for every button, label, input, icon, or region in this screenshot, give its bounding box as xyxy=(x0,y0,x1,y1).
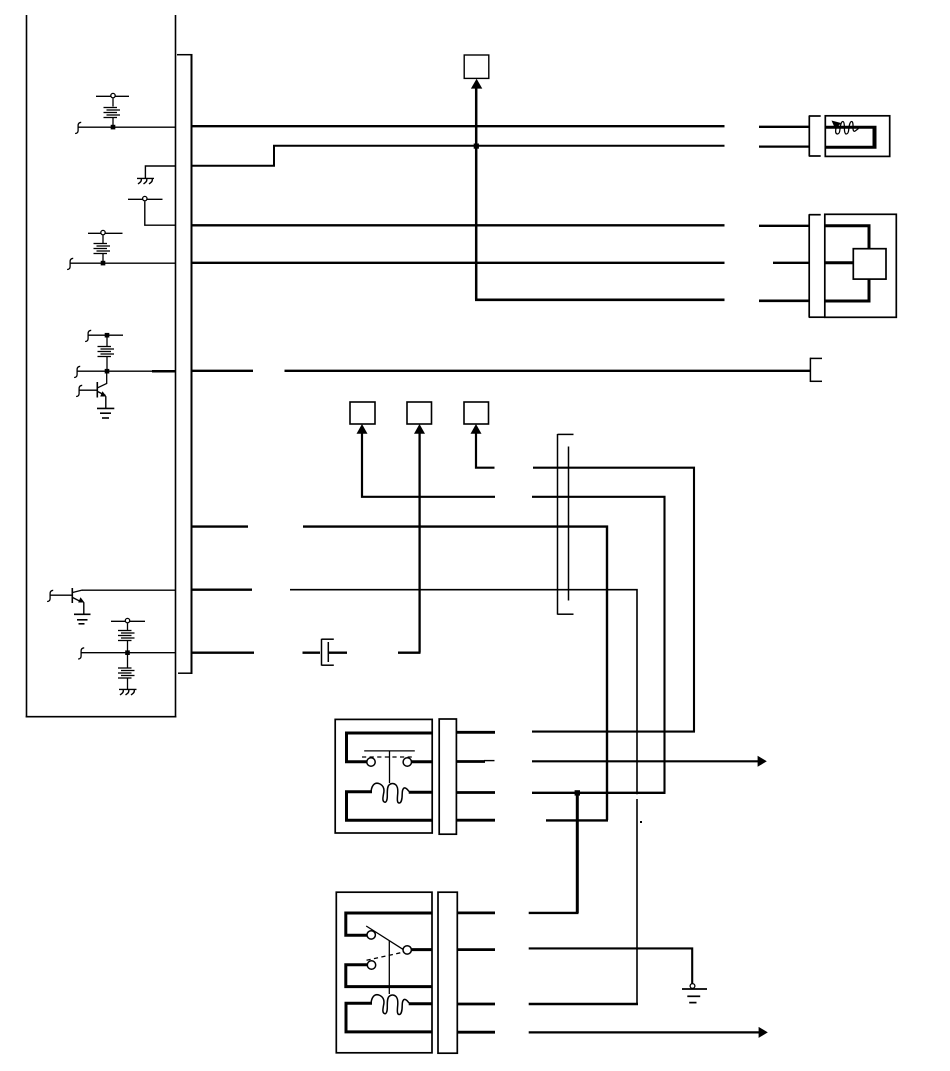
wire row E xyxy=(192,652,255,654)
wire row D segment 2 xyxy=(290,590,637,795)
relay K1 box xyxy=(335,719,432,833)
heater connector xyxy=(809,116,821,157)
K1 wire 2 arrow line xyxy=(532,760,758,762)
K1 wire 3 xyxy=(532,792,666,794)
M3 wire xyxy=(418,433,420,653)
wire row5 segment 2 xyxy=(759,299,810,302)
connector squiggle xyxy=(85,330,91,341)
heater box xyxy=(825,116,889,157)
terminal circle line 1 xyxy=(96,95,129,97)
K2 pin stubs xyxy=(457,913,495,1032)
battery feed vertical xyxy=(576,793,579,913)
inline connector mid xyxy=(558,434,574,615)
ECU box bottom edge xyxy=(26,716,177,718)
node dot xyxy=(105,369,110,374)
relay K1 contact left xyxy=(367,758,375,766)
inline connector small xyxy=(322,639,334,666)
arrow up M1 xyxy=(471,79,482,89)
sensor box xyxy=(825,214,897,317)
K1 wire 4 xyxy=(546,819,608,821)
relay K1 switch bar xyxy=(364,750,415,752)
node dot xyxy=(575,790,580,795)
wire pin row 7 left xyxy=(81,652,175,654)
node dot xyxy=(474,144,479,149)
resistor R1 xyxy=(104,108,121,118)
relay K1 connector xyxy=(439,719,456,834)
relay K2 coil left wire xyxy=(346,1003,432,1032)
earth ground xyxy=(97,408,114,418)
supply line vertical xyxy=(475,88,478,300)
wire row4 right xyxy=(192,262,725,264)
end bracket xyxy=(810,358,822,382)
sensor inner wiring xyxy=(826,226,870,301)
relay K2 contact B xyxy=(403,946,411,954)
wire row A xyxy=(533,468,694,732)
wire xyxy=(127,641,129,653)
relay K2 pin1 xyxy=(346,913,432,935)
node dot xyxy=(111,125,116,130)
wire pin row 2 left xyxy=(70,262,175,264)
relay K2 pin3 xyxy=(409,1002,432,1005)
chassis ground xyxy=(137,178,154,184)
node dot xyxy=(101,261,106,266)
relay K2 pin2 xyxy=(412,948,432,951)
connector squiggle xyxy=(75,122,81,133)
relay K2 blade xyxy=(366,926,404,950)
stray dot xyxy=(640,821,642,823)
terminal circle line 2 xyxy=(128,198,163,200)
K2 wire 4 arrow line xyxy=(529,1031,759,1033)
wire row E segment 3 xyxy=(329,652,347,654)
relay K2 coil xyxy=(371,995,409,1015)
K1 pin stubs xyxy=(456,732,495,820)
K2 wire 3 xyxy=(529,1003,638,1005)
wire row B xyxy=(532,497,665,793)
relay K2 contact C xyxy=(367,961,375,969)
relay K2 dashed link xyxy=(367,952,404,960)
resistor R5 xyxy=(118,655,135,689)
ECU box right edge xyxy=(175,15,177,718)
wire row2 segment 2 xyxy=(759,145,810,147)
wire row5 right xyxy=(475,298,725,301)
terminal circle 1 xyxy=(111,93,115,97)
module square M2 xyxy=(350,402,375,424)
connector squiggle xyxy=(74,366,80,377)
node dot xyxy=(125,650,130,655)
wire xyxy=(102,236,104,244)
module square M1 xyxy=(464,55,489,78)
terminal circle line 3 xyxy=(88,232,123,234)
chassis ground wire xyxy=(145,166,175,178)
wire row D xyxy=(192,589,253,591)
earth ground xyxy=(74,614,91,624)
sensor inner element xyxy=(853,249,886,279)
arrow up M3 xyxy=(414,424,425,434)
ground terminal circle xyxy=(690,984,695,989)
module square M3 xyxy=(407,402,432,424)
relay K1 actuator link xyxy=(389,751,391,783)
wire xyxy=(145,202,176,226)
relay K1 switch dashed xyxy=(362,756,414,758)
wire row1 right segment 2 xyxy=(759,126,810,128)
wire pin row 3 left xyxy=(77,370,152,372)
wire row D lower part xyxy=(636,799,638,1004)
wire row E segment 4 xyxy=(398,652,421,654)
resistor R2 xyxy=(94,244,111,254)
wire row C xyxy=(192,525,249,527)
terminal circle 3 xyxy=(101,230,105,234)
terminal circle 2 xyxy=(143,196,147,200)
wire xyxy=(127,624,129,631)
relay K2 box xyxy=(336,892,432,1053)
K2 wire 1 xyxy=(529,912,579,914)
wire row4 segment 2 xyxy=(773,262,810,264)
node dot xyxy=(105,333,110,338)
relay K1 pin3 xyxy=(409,791,432,794)
relay K1 pin2 xyxy=(412,760,433,763)
M4 wire xyxy=(476,433,495,468)
M2 wire xyxy=(362,433,495,497)
earth ground right xyxy=(682,989,707,1003)
wire row1 right xyxy=(192,125,725,127)
module square M4 xyxy=(464,402,489,424)
wire row long (pin3) xyxy=(192,370,811,372)
chassis ground 2 xyxy=(119,689,137,695)
arrow right 1 xyxy=(758,756,767,767)
wire row2 step xyxy=(192,146,725,166)
relay K2 NC wire xyxy=(346,965,432,987)
terminal circle 4 xyxy=(125,618,129,622)
wire pin row 3 thick xyxy=(152,370,176,373)
wire stub xyxy=(88,334,123,336)
wire row3 right xyxy=(192,224,725,226)
ECU connector bar xyxy=(177,54,193,674)
Q2 base wire xyxy=(50,594,72,596)
wire pin row 6 left xyxy=(82,589,176,591)
wire xyxy=(112,99,114,107)
transistor Q1 xyxy=(97,373,106,408)
wire row E segment 2 xyxy=(303,652,321,654)
connector squiggle xyxy=(76,385,82,396)
Q1 base wire xyxy=(79,389,97,391)
wire row C segment 2 xyxy=(303,527,607,820)
connector squiggle xyxy=(47,590,53,601)
heater sensing arrow xyxy=(832,121,842,130)
relay K1 coil xyxy=(371,783,409,803)
arrow up M2 xyxy=(357,424,368,434)
arrow up M4 xyxy=(471,424,482,434)
arrow right 2 xyxy=(759,1027,768,1038)
relay K2 contact A xyxy=(367,931,375,939)
K1 wire 1 xyxy=(532,731,695,733)
relay K2 actuator link xyxy=(388,941,390,994)
relay K1 contact right xyxy=(403,758,411,766)
heater sensing resistor xyxy=(836,122,859,135)
resistor R4 xyxy=(118,631,135,641)
resistor R3 xyxy=(98,337,115,370)
terminal circle line 4 xyxy=(111,620,145,622)
relay K2 connector xyxy=(438,892,457,1053)
wire xyxy=(112,118,114,127)
K2 wire 2 ground run xyxy=(529,948,693,983)
ECU box left edge xyxy=(26,15,28,718)
wire xyxy=(102,254,104,263)
relay K1 pin1 xyxy=(347,733,433,762)
wire row3 segment 2 xyxy=(759,225,810,227)
relay K1 coil left wire xyxy=(347,792,433,821)
sensor connector xyxy=(809,214,825,317)
K1 pin2 stub tail xyxy=(484,760,495,762)
transistor Q2 xyxy=(72,588,84,614)
heater element loop xyxy=(826,127,875,147)
connector squiggle xyxy=(67,258,73,269)
wire pin row 1 left xyxy=(78,126,175,128)
connector squiggle xyxy=(78,648,84,659)
